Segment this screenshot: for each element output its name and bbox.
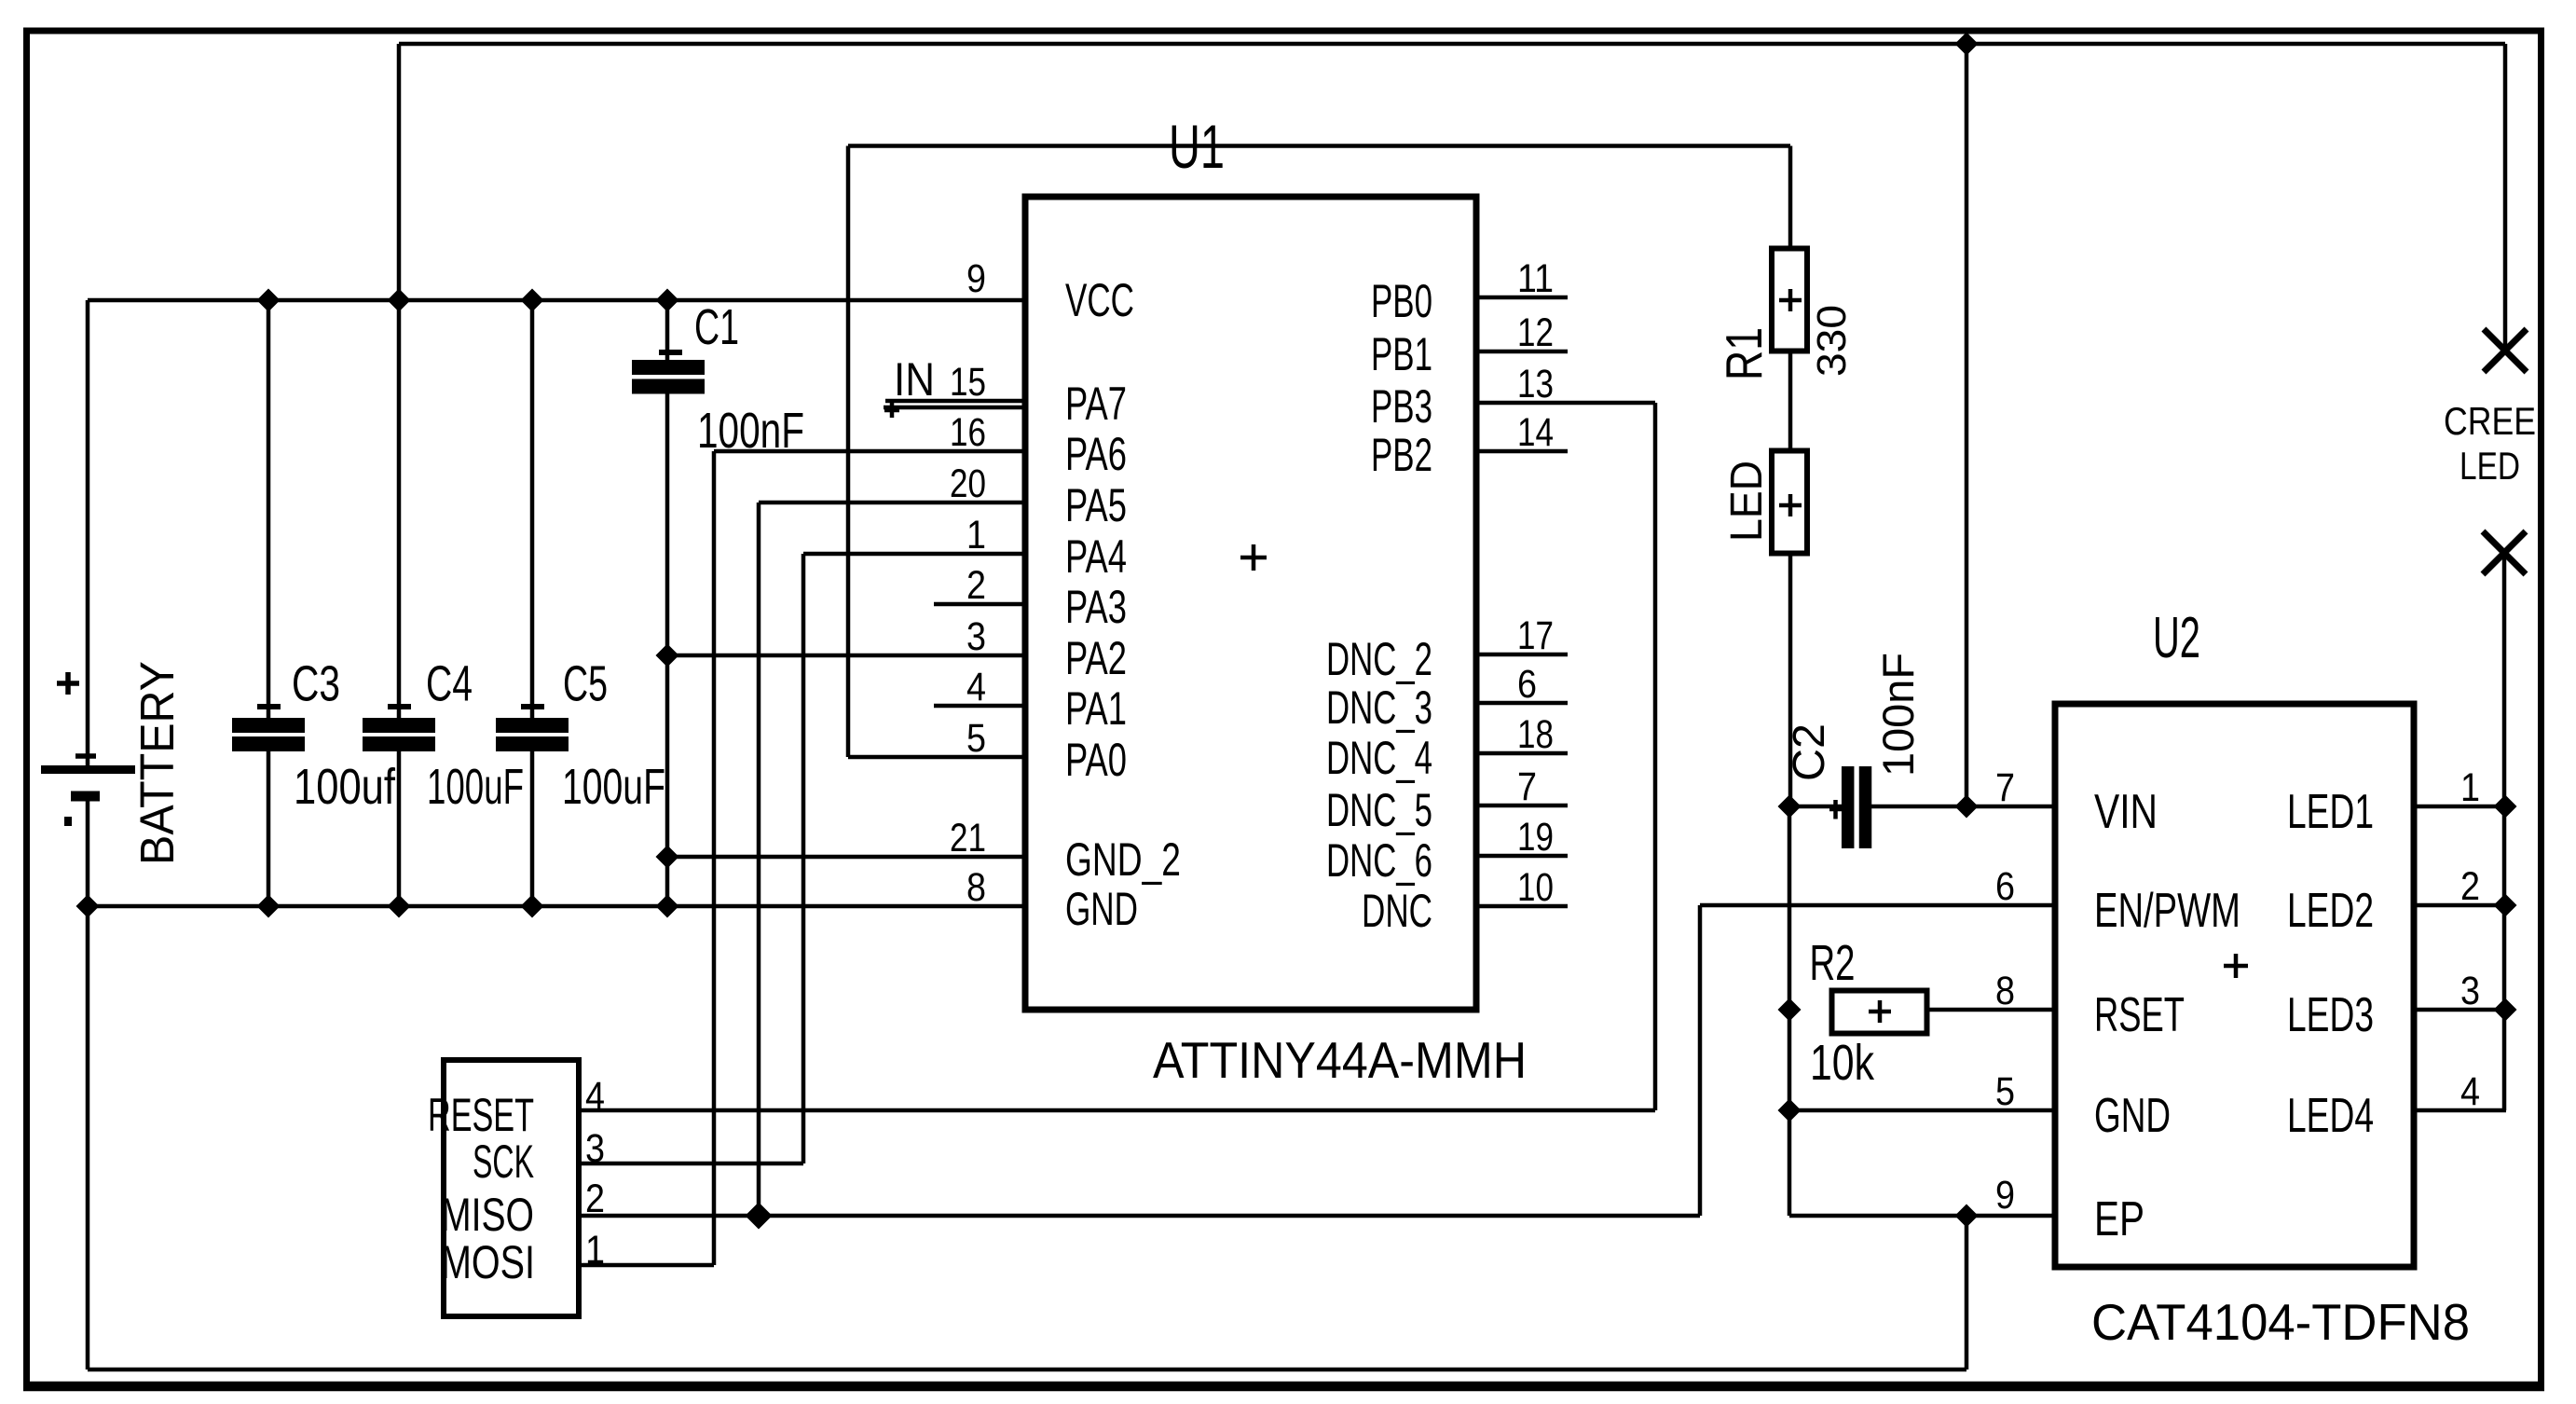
svg-text:3: 3: [2460, 969, 2480, 1013]
svg-text:IN: IN: [894, 353, 935, 406]
svg-text:LED2: LED2: [2287, 884, 2374, 938]
svg-text:C3: C3: [292, 656, 340, 712]
svg-text:19: 19: [1517, 815, 1554, 860]
svg-text:1: 1: [966, 513, 986, 557]
svg-text:LED: LED: [2460, 444, 2520, 488]
svg-text:PA6: PA6: [1065, 428, 1127, 480]
svg-text:BATTERY: BATTERY: [130, 661, 184, 865]
svg-text:PA3: PA3: [1065, 581, 1127, 633]
svg-text:C1: C1: [694, 299, 739, 355]
svg-text:5: 5: [966, 716, 986, 761]
svg-text:DNC: DNC: [1362, 885, 1432, 937]
svg-text:10: 10: [1517, 865, 1554, 910]
svg-text:R1: R1: [1715, 327, 1773, 380]
svg-text:8: 8: [1995, 969, 2015, 1013]
svg-text:EP: EP: [2094, 1192, 2144, 1246]
svg-text:EN/PWM: EN/PWM: [2094, 884, 2240, 938]
svg-text:100uF: 100uF: [562, 759, 665, 815]
svg-text:5: 5: [1995, 1069, 2015, 1114]
svg-text:330: 330: [1809, 305, 1855, 377]
svg-text:4: 4: [2460, 1069, 2480, 1114]
svg-text:PA2: PA2: [1065, 632, 1127, 684]
svg-text:DNC_4: DNC_4: [1326, 732, 1432, 784]
svg-text:7: 7: [1517, 764, 1537, 809]
svg-text:1: 1: [2460, 765, 2480, 810]
svg-text:14: 14: [1517, 410, 1554, 455]
svg-text:LED1: LED1: [2287, 785, 2374, 839]
svg-text:PB2: PB2: [1371, 429, 1432, 481]
svg-text:4: 4: [585, 1074, 605, 1119]
svg-text:6: 6: [1995, 864, 2015, 909]
svg-text:2: 2: [966, 563, 986, 608]
svg-text:6: 6: [1517, 662, 1537, 707]
svg-text:LED: LED: [1722, 461, 1772, 542]
svg-text:CREE: CREE: [2444, 399, 2536, 443]
svg-text:CAT4104-TDFN8: CAT4104-TDFN8: [2091, 1293, 2470, 1351]
svg-text:8: 8: [966, 865, 986, 910]
svg-text:RESET: RESET: [428, 1089, 534, 1141]
svg-text:R2: R2: [1810, 935, 1856, 991]
svg-text:MISO: MISO: [441, 1189, 534, 1241]
svg-text:VIN: VIN: [2094, 785, 2158, 839]
svg-text:100uf: 100uf: [294, 759, 396, 815]
svg-text:16: 16: [950, 410, 986, 455]
svg-text:11: 11: [1517, 256, 1554, 301]
svg-text:DNC_5: DNC_5: [1326, 784, 1432, 836]
svg-text:15: 15: [950, 360, 986, 405]
svg-text:ATTINY44A-MMH: ATTINY44A-MMH: [1153, 1031, 1527, 1089]
svg-text:U2: U2: [2153, 606, 2200, 670]
svg-text:7: 7: [1995, 765, 2015, 810]
svg-text:100uF: 100uF: [427, 759, 524, 815]
svg-text:SCK: SCK: [473, 1136, 534, 1188]
svg-text:GND: GND: [1065, 883, 1138, 935]
svg-text:GND_2: GND_2: [1065, 833, 1181, 886]
svg-text:20: 20: [950, 461, 986, 506]
svg-text:PA1: PA1: [1065, 682, 1127, 735]
svg-text:DNC_6: DNC_6: [1326, 834, 1432, 887]
svg-text:RSET: RSET: [2094, 988, 2185, 1042]
svg-text:2: 2: [2460, 864, 2480, 909]
svg-text:PA5: PA5: [1065, 479, 1127, 531]
svg-text:PB3: PB3: [1371, 380, 1432, 433]
svg-text:21: 21: [950, 816, 986, 860]
svg-text:10k: 10k: [1810, 1035, 1875, 1091]
svg-text:LED4: LED4: [2287, 1089, 2374, 1143]
svg-text:12: 12: [1517, 310, 1554, 355]
svg-text:C5: C5: [563, 656, 608, 712]
svg-text:DNC_2: DNC_2: [1326, 633, 1432, 685]
svg-text:3: 3: [966, 614, 986, 659]
svg-text:DNC_3: DNC_3: [1326, 681, 1432, 734]
svg-text:C4: C4: [426, 656, 473, 712]
svg-text:PA7: PA7: [1065, 378, 1127, 430]
svg-text:VCC: VCC: [1065, 274, 1134, 326]
svg-text:17: 17: [1517, 613, 1554, 658]
svg-text:13: 13: [1517, 362, 1554, 406]
svg-text:PA4: PA4: [1065, 530, 1127, 583]
svg-text:100nF: 100nF: [1873, 653, 1923, 777]
svg-text:PA0: PA0: [1065, 734, 1127, 786]
svg-text:MOSI: MOSI: [441, 1236, 535, 1288]
svg-text:9: 9: [966, 256, 986, 301]
svg-text:GND: GND: [2094, 1089, 2171, 1143]
svg-text:4: 4: [966, 665, 986, 709]
svg-text:PB0: PB0: [1371, 275, 1432, 327]
svg-text:PB1: PB1: [1371, 328, 1432, 380]
svg-text:LED3: LED3: [2287, 988, 2374, 1042]
svg-text:9: 9: [1995, 1173, 2015, 1218]
svg-text:C2: C2: [1785, 723, 1834, 781]
svg-text:18: 18: [1517, 712, 1554, 757]
